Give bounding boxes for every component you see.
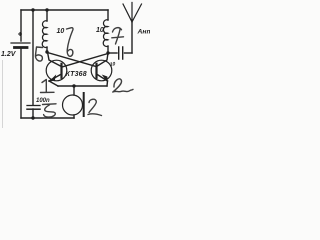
transistor V1 emitter: [49, 74, 62, 81]
node dot top L1: [45, 8, 48, 11]
wire V1 emitter to rail: [49, 81, 58, 86]
transistor V1 emitter arrow: [50, 76, 56, 82]
handwritten callout 5 (capacitor C1): [43, 104, 57, 117]
wire cross couple A (L1 node to V2 base): [48, 53, 97, 67]
wire battery top lead: [20, 10, 22, 41]
transistor V1 body circle: [46, 60, 67, 81]
battery GB1 plates: [11, 42, 30, 44]
antenna prongs: [123, 3, 142, 23]
wire V2 emitter to rail: [106, 81, 109, 86]
node dot L1 bottom: [45, 50, 48, 53]
microphone BM1 electret bar: [83, 93, 85, 116]
handwritten callout 2 (transistor V2): [113, 79, 133, 92]
battery plus mark: [19, 33, 22, 36]
node dot L2 bottom: [106, 51, 109, 54]
wire C2 to antenna: [125, 52, 133, 54]
wire V2 collector: [97, 53, 109, 67]
handwritten callout 3 (microphone): [88, 99, 102, 115]
node dot top C1: [31, 8, 34, 11]
svg-text:10: 10: [57, 28, 65, 35]
transistor V2 emitter: [97, 74, 108, 81]
wire inductor L1 top lead: [46, 10, 48, 21]
handwritten callout 1 (transistor V1): [41, 80, 55, 93]
wire capacitor C1 branch bottom: [32, 109, 34, 118]
wire V1 collector: [48, 52, 62, 67]
wire antenna feed: [108, 52, 117, 54]
wire top supply rail: [21, 9, 108, 11]
svg-text:10: 10: [109, 61, 116, 68]
wire inductor L1 bottom lead: [46, 47, 48, 52]
svg-text:1.2V: 1.2V: [1, 51, 17, 58]
svg-text:10: 10: [96, 27, 104, 34]
wire emitter rail: [58, 85, 107, 87]
transistor V2 body circle: [91, 60, 112, 81]
node dot ground C1: [31, 116, 34, 119]
wire cross couple B (L2 node to V1 base): [62, 54, 108, 68]
transistor V2 base bar: [95, 64, 97, 78]
svg-text:Ант: Ант: [137, 29, 151, 36]
wire inductor L2 top lead: [107, 10, 109, 20]
capacitor C1 plates: [27, 105, 40, 107]
inductor L1 coil: [42, 21, 47, 48]
svg-text:КТ368: КТ368: [66, 71, 87, 78]
svg-text:100n: 100n: [36, 98, 50, 104]
wire inductor L2 bottom lead: [107, 46, 109, 53]
handwritten callout 7 (inductor L2): [112, 28, 124, 44]
transistor V2 emitter arrow: [103, 75, 107, 81]
scan page edge line: [2, 60, 4, 128]
wire capacitor C1 branch top: [32, 10, 34, 105]
wire mic bottom: [73, 115, 75, 118]
wire bottom ground rail: [21, 117, 74, 119]
transistor V1 base bar: [60, 64, 62, 78]
handwritten callout 8 (at L1/base area): [35, 47, 42, 61]
inductor L2 coil: [103, 20, 108, 47]
handwritten callout 6 (cross coupling): [67, 28, 74, 57]
wire battery bottom lead: [20, 49, 22, 118]
capacitor C2 plates: [119, 47, 123, 59]
node dot emitter rail: [72, 84, 75, 87]
wire mic stub: [73, 86, 75, 95]
microphone BM1 circle: [63, 95, 83, 115]
antenna stem: [131, 22, 133, 53]
